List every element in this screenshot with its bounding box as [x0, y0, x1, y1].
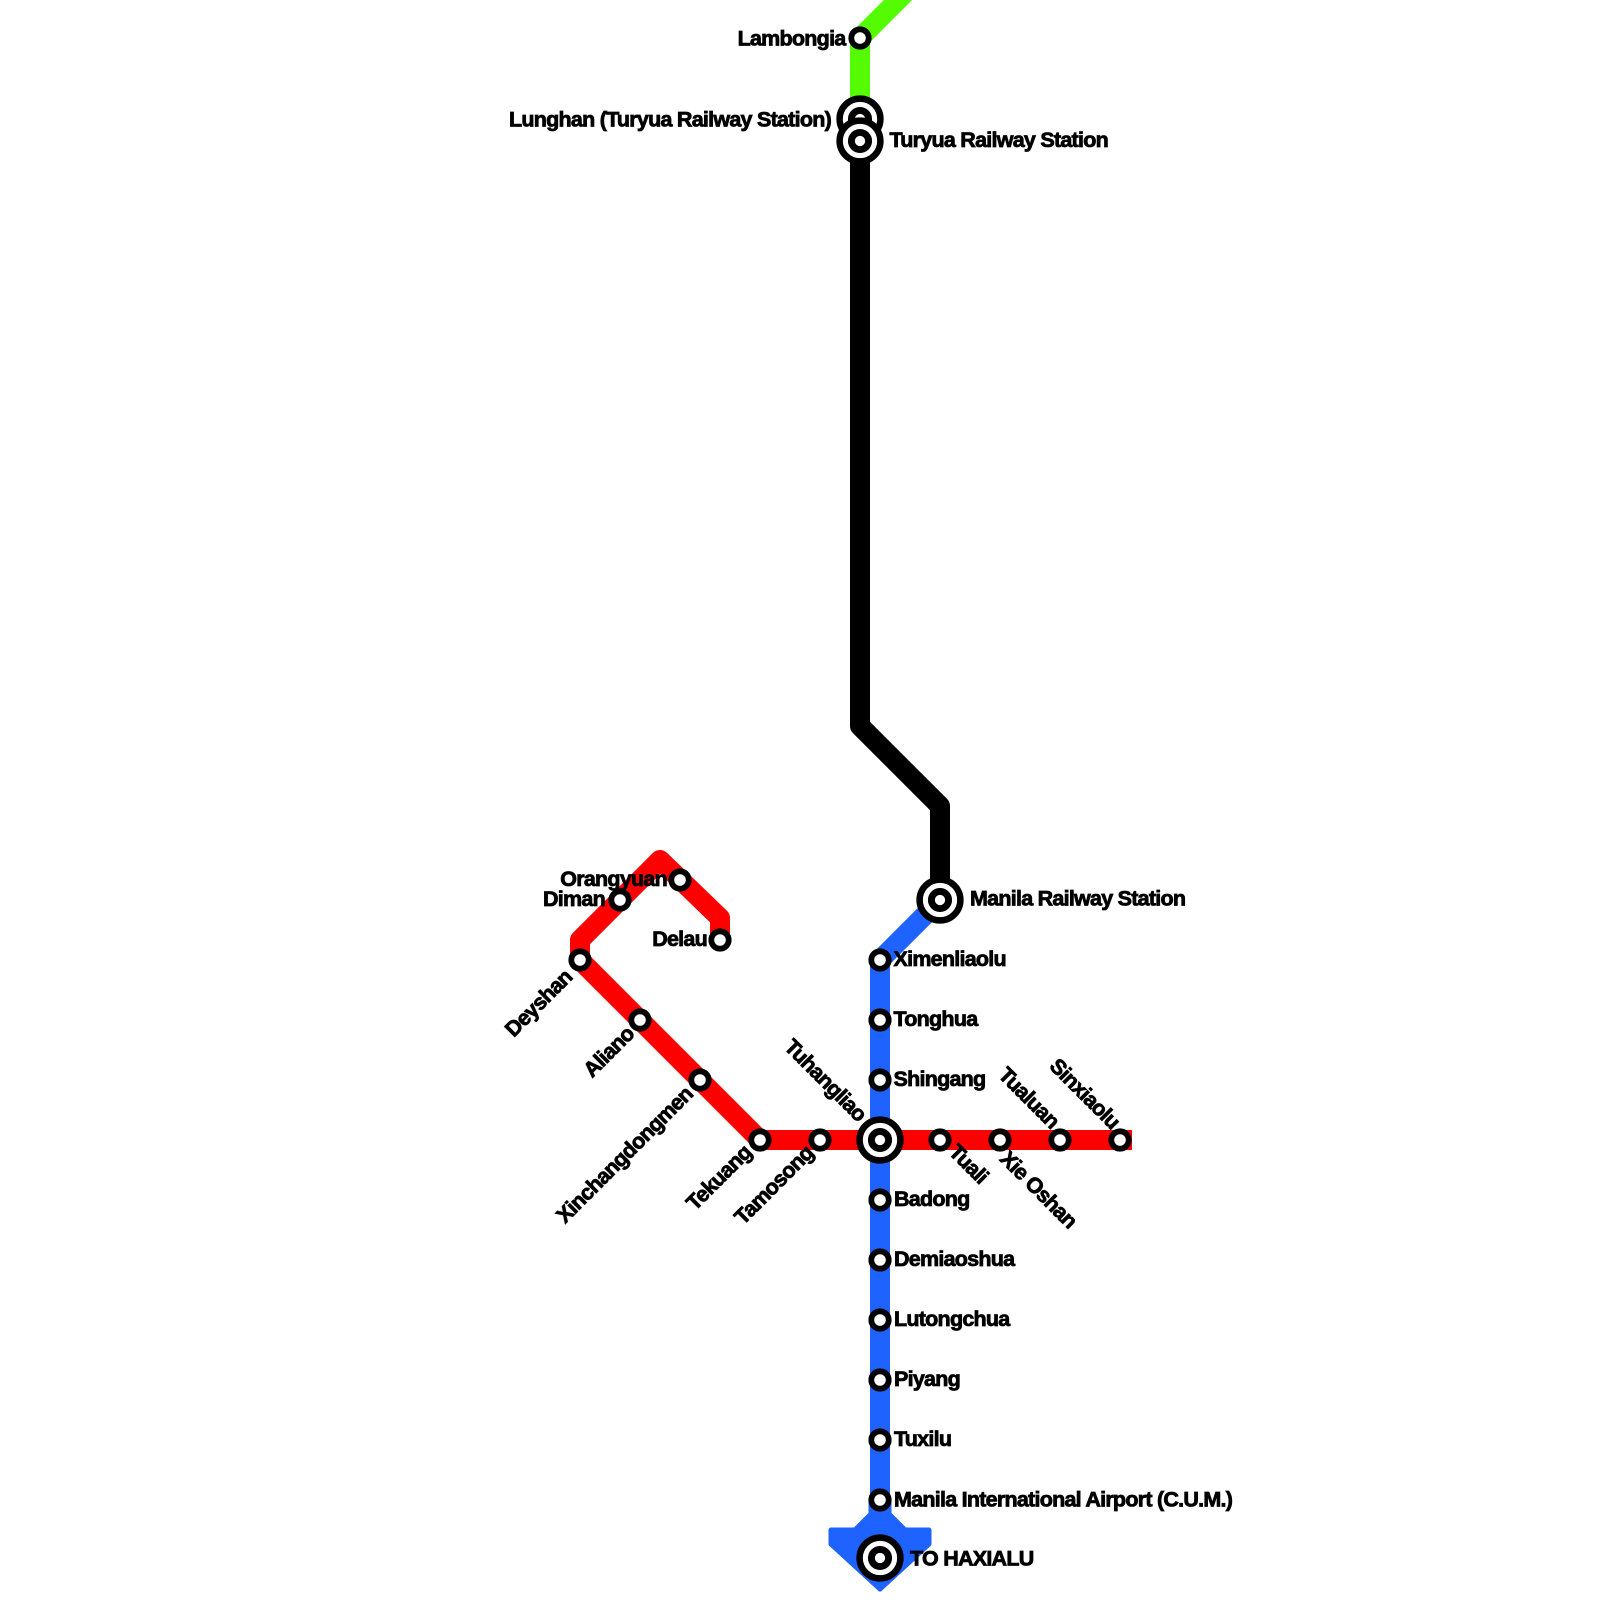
interchange station Turyua Railway Station: [840, 121, 881, 162]
station Diman: [611, 891, 628, 908]
station Delau: [711, 931, 728, 948]
station Tekuang: [751, 1131, 768, 1148]
station Xie Oshan: [991, 1131, 1008, 1148]
station Tonghua: [871, 1011, 888, 1028]
svg-text:Lutongchua: Lutongchua: [894, 1307, 1011, 1331]
green line: [860, 0, 915, 119]
station Ximenliaolu: [871, 951, 888, 968]
svg-text:Xie Oshan: Xie Oshan: [995, 1146, 1082, 1233]
interchange station Tuhangliao: [860, 1120, 901, 1161]
svg-text:Piyang: Piyang: [894, 1367, 960, 1391]
station Demiaoshua: [871, 1251, 888, 1268]
blue line: [880, 900, 940, 1516]
svg-text:Tuhangliao: Tuhangliao: [780, 1035, 872, 1127]
station Orangyuan: [671, 871, 688, 888]
svg-text:Aliano: Aliano: [579, 1021, 640, 1082]
station Aliano: [631, 1011, 648, 1028]
svg-text:Demiaoshua: Demiaoshua: [894, 1247, 1016, 1271]
station Manila International Airport (C.U.M.): [871, 1491, 888, 1508]
svg-text:Turyua Railway Station: Turyua Railway Station: [890, 128, 1108, 152]
station Tuxilu: [871, 1431, 888, 1448]
station Badong: [871, 1191, 888, 1208]
station Xinchangdongmen: [691, 1071, 708, 1088]
svg-text:Deyshan: Deyshan: [500, 965, 577, 1042]
station Tualuan: [1051, 1131, 1068, 1148]
station Tuali: [931, 1131, 948, 1148]
svg-text:Diman: Diman: [543, 887, 605, 911]
black line: [860, 140, 940, 900]
svg-text:TO HAXIALU: TO HAXIALU: [910, 1547, 1034, 1571]
station Lutongchua: [871, 1311, 888, 1328]
station Sinxiaolu: [1111, 1131, 1128, 1148]
svg-text:Manila International Airport (: Manila International Airport (C.U.M.): [894, 1488, 1233, 1512]
station Lambongia: [851, 29, 868, 46]
blue line terminus arrow: [831, 1500, 929, 1589]
svg-text:Tonghua: Tonghua: [894, 1007, 980, 1031]
interchange station Manila Railway Station: [920, 880, 961, 921]
svg-text:Tuxilu: Tuxilu: [894, 1427, 951, 1451]
interchange station Lunghan (Turyua Railway Station): [840, 99, 881, 140]
svg-text:Lambongia: Lambongia: [738, 27, 848, 51]
interchange station TO HAXIALU: [860, 1538, 901, 1579]
station Piyang: [871, 1371, 888, 1388]
station Shingang: [871, 1071, 888, 1088]
station Deyshan: [571, 951, 588, 968]
svg-text:Delau: Delau: [652, 927, 707, 951]
svg-text:Shingang: Shingang: [894, 1067, 986, 1091]
svg-text:Xinchangdongmen: Xinchangdongmen: [552, 1082, 698, 1228]
svg-text:Lunghan (Turyua Railway Statio: Lunghan (Turyua Railway Station): [509, 108, 832, 132]
station Tamosong: [811, 1131, 828, 1148]
svg-text:Ximenliaolu: Ximenliaolu: [894, 947, 1006, 971]
red line: [580, 860, 1132, 1140]
svg-text:Badong: Badong: [894, 1187, 970, 1211]
svg-text:Manila Railway Station: Manila Railway Station: [970, 887, 1185, 911]
